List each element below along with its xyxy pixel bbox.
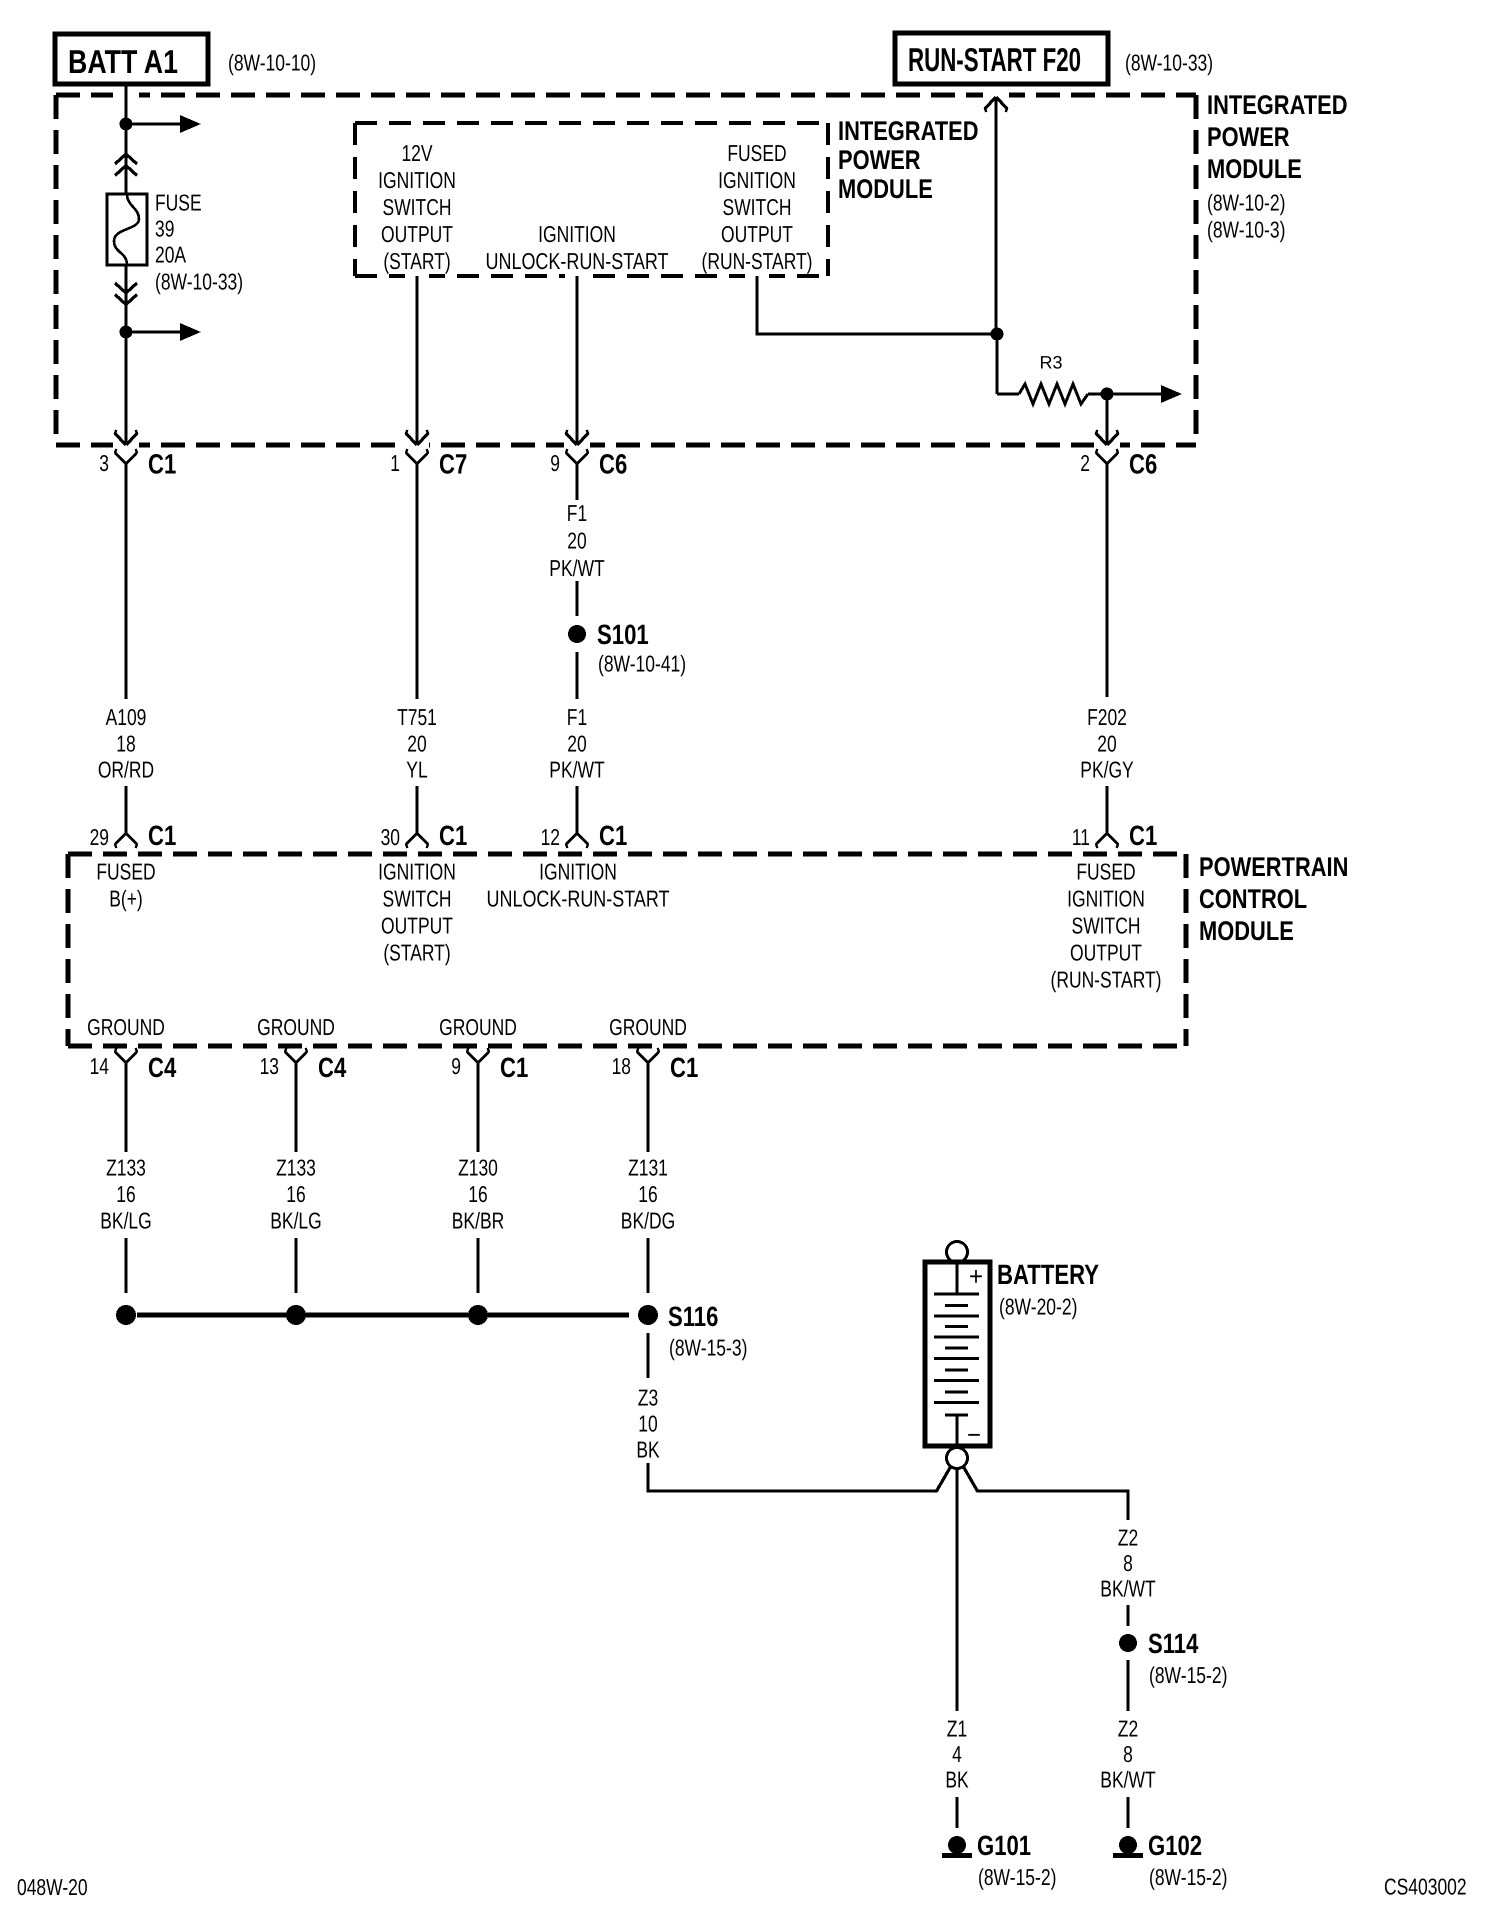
svg-text:C4: C4: [318, 1052, 347, 1083]
splice S116: [638, 1301, 747, 1360]
svg-text:UNLOCK-RUN-START: UNLOCK-RUN-START: [486, 248, 669, 274]
inline connector chevrons below fuse: [115, 283, 137, 305]
svg-text:SWITCH: SWITCH: [1072, 912, 1141, 938]
svg-text:13: 13: [260, 1053, 279, 1079]
label IGNITION SWITCH OUTPUT (START): [378, 858, 456, 965]
svg-text:18: 18: [612, 1053, 631, 1079]
svg-text:16: 16: [116, 1181, 135, 1207]
svg-text:(8W-15-2): (8W-15-2): [1149, 1662, 1227, 1688]
svg-text:20: 20: [567, 730, 586, 756]
junction at run-start feed: [991, 328, 1004, 341]
svg-text:11: 11: [1072, 824, 1090, 850]
svg-text:YL: YL: [406, 756, 428, 782]
svg-text:IGNITION: IGNITION: [718, 167, 796, 193]
svg-text:IGNITION: IGNITION: [1067, 885, 1145, 911]
svg-text:S101: S101: [597, 619, 649, 650]
wire down to resistor R3: [997, 334, 1019, 394]
wire ground Z133 BK/LG upper: [294, 1063, 297, 1152]
svg-text:SWITCH: SWITCH: [383, 885, 452, 911]
svg-text:Z3: Z3: [638, 1384, 658, 1410]
svg-text:14: 14: [90, 1053, 110, 1079]
connector 9 C6: [550, 449, 627, 480]
label GROUND x4: [87, 1014, 687, 1040]
svg-text:(8W-15-3): (8W-15-3): [669, 1334, 747, 1360]
svg-text:Z133: Z133: [276, 1154, 316, 1180]
label F202 20 PK/GY: [1080, 704, 1133, 783]
svg-text:POWER: POWER: [1207, 122, 1290, 152]
svg-text:12: 12: [541, 824, 560, 850]
svg-text:FUSED: FUSED: [1076, 858, 1135, 884]
svg-text:GROUND: GROUND: [87, 1014, 165, 1040]
svg-text:Z2: Z2: [1118, 1524, 1138, 1550]
svg-text:IGNITION: IGNITION: [378, 167, 456, 193]
label Z2 8 BK/WT (upper): [1100, 1524, 1155, 1601]
connector 14 C4: [90, 1048, 177, 1083]
svg-text:C1: C1: [439, 820, 467, 851]
svg-text:B(+): B(+): [109, 885, 143, 911]
splice S101: [568, 619, 686, 676]
svg-text:GROUND: GROUND: [439, 1014, 517, 1040]
svg-text:OUTPUT: OUTPUT: [721, 221, 793, 247]
connector 29 C1: [90, 820, 177, 851]
svg-text:BK/LG: BK/LG: [270, 1207, 322, 1233]
svg-text:BK/BR: BK/BR: [452, 1207, 505, 1233]
label A109 18 OR/RD: [98, 704, 154, 783]
wire to splice S101: [575, 581, 578, 616]
svg-text:F1: F1: [567, 500, 587, 526]
wire resistor to junction: [1088, 392, 1107, 395]
svg-text:MODULE: MODULE: [838, 174, 933, 204]
resistor R3: [1019, 353, 1088, 404]
svg-text:BK/LG: BK/LG: [100, 1207, 152, 1233]
wire Z2 battery negative to right: [963, 1466, 1128, 1520]
svg-text:UNLOCK-RUN-START: UNLOCK-RUN-START: [487, 885, 670, 911]
wire F202 upper: [1105, 464, 1108, 697]
wire from fused ignition switch output (run-start): [756, 276, 998, 334]
svg-text:(RUN-START): (RUN-START): [702, 248, 813, 274]
svg-text:10: 10: [638, 1410, 657, 1436]
label F1 20 PK/WT (lower): [549, 704, 604, 783]
wire fuse output: [124, 265, 127, 444]
svg-text:INTEGRATED: INTEGRATED: [838, 116, 979, 146]
svg-text:(START): (START): [383, 248, 450, 274]
wire up to RUN-START F20: [994, 97, 997, 334]
arrow into IPM connector C1 pin 3: [115, 430, 137, 445]
svg-text:(8W-10-33): (8W-10-33): [155, 268, 243, 294]
svg-text:FUSED: FUSED: [96, 858, 155, 884]
svg-text:(8W-10-2): (8W-10-2): [1207, 189, 1285, 215]
wire T751 from inner box: [415, 276, 418, 444]
label FUSED IGNITION SWITCH OUTPUT (RUN-START) (pcm): [1051, 858, 1162, 992]
svg-text:Z2: Z2: [1118, 1715, 1138, 1741]
svg-text:FUSED: FUSED: [727, 140, 786, 166]
wire F202 lower: [1105, 786, 1108, 833]
label T751 20 YL: [397, 704, 437, 783]
fuse block label RUN-START F20: [895, 33, 1213, 84]
svg-text:3: 3: [99, 450, 109, 476]
svg-text:BK/WT: BK/WT: [1100, 1575, 1155, 1601]
wire Z3 lower to battery negative: [647, 1463, 952, 1492]
wire Z3 upper: [646, 1333, 649, 1378]
svg-text:4: 4: [952, 1741, 962, 1767]
wire ground Z130 BK/BR lower: [476, 1238, 479, 1293]
svg-text:OUTPUT: OUTPUT: [1070, 939, 1142, 965]
svg-text:SWITCH: SWITCH: [723, 194, 792, 220]
svg-text:8: 8: [1123, 1741, 1133, 1767]
junction bus 1: [116, 1305, 136, 1325]
wire ground Z130 BK/BR upper: [476, 1063, 479, 1152]
svg-text:(8W-15-2): (8W-15-2): [978, 1864, 1056, 1890]
arrow into RUN-START F20: [985, 97, 1007, 112]
svg-text:IGNITION: IGNITION: [539, 858, 617, 884]
svg-text:GROUND: GROUND: [609, 1014, 687, 1040]
connector 30 C1: [381, 820, 468, 851]
svg-text:C1: C1: [148, 820, 176, 851]
label IGNITION UNLOCK-RUN-START (pcm): [487, 858, 670, 911]
svg-text:FUSE: FUSE: [155, 189, 202, 215]
arrow into IPM connector C7 pin 1: [406, 430, 428, 445]
svg-text:Z133: Z133: [106, 1154, 146, 1180]
label IGNITION UNLOCK-RUN-START: [486, 221, 669, 274]
svg-text:BK/DG: BK/DG: [621, 1207, 675, 1233]
svg-text:(8W-10-41): (8W-10-41): [598, 650, 686, 676]
wire A109 lower: [124, 786, 127, 833]
svg-text:PK/WT: PK/WT: [549, 756, 604, 782]
svg-text:(8W-10-10): (8W-10-10): [228, 49, 316, 75]
junction bus 3: [468, 1305, 488, 1325]
svg-text:1: 1: [390, 450, 400, 476]
svg-text:2: 2: [1080, 450, 1090, 476]
svg-text:(8W-15-2): (8W-15-2): [1149, 1864, 1227, 1890]
svg-text:20A: 20A: [155, 241, 187, 267]
arrow into IPM connector C6 pin 9: [566, 430, 588, 445]
battery: [925, 1242, 990, 1469]
label POWERTRAIN CONTROL MODULE: [1199, 852, 1348, 946]
svg-text:CONTROL: CONTROL: [1199, 884, 1307, 914]
wire T751 lower: [415, 786, 418, 833]
label 12V IGNITION SWITCH OUTPUT (START): [378, 140, 456, 274]
svg-text:18: 18: [116, 730, 135, 756]
svg-text:RUN-START F20: RUN-START F20: [908, 41, 1081, 78]
svg-text:S116: S116: [668, 1301, 718, 1332]
svg-text:(8W-10-3): (8W-10-3): [1207, 216, 1285, 242]
svg-text:20: 20: [407, 730, 426, 756]
svg-text:Z131: Z131: [628, 1154, 668, 1180]
svg-text:−: −: [967, 1420, 981, 1450]
svg-text:GROUND: GROUND: [257, 1014, 335, 1040]
svg-text:PK/GY: PK/GY: [1080, 756, 1133, 782]
svg-text:(START): (START): [383, 939, 450, 965]
label Z3 10 BK: [636, 1384, 660, 1462]
label Z130 16 BK/BR: [452, 1154, 505, 1233]
svg-text:20: 20: [1097, 730, 1116, 756]
ground G101: [942, 1830, 1056, 1890]
svg-text:R3: R3: [1040, 353, 1063, 373]
svg-text:C1: C1: [500, 1052, 528, 1083]
wire battery feed from BATT A1: [124, 84, 127, 194]
connector 12 C1: [541, 820, 628, 851]
wire Z2 from splice S114: [1126, 1660, 1129, 1711]
label Z133 16 BK/LG: [270, 1154, 322, 1233]
label Z2 8 BK/WT (lower): [1100, 1715, 1155, 1792]
wire from splice S101: [575, 652, 578, 699]
svg-text:IGNITION: IGNITION: [538, 221, 616, 247]
wire F1 upper: [575, 464, 578, 500]
svg-text:T751: T751: [397, 704, 437, 730]
inline connector chevrons above fuse: [115, 154, 137, 176]
powertrain control module dashed box: [68, 854, 1186, 1046]
svg-text:CS403002: CS403002: [1384, 1873, 1467, 1899]
svg-text:C1: C1: [1129, 820, 1157, 851]
svg-text:POWER: POWER: [838, 145, 921, 175]
svg-text:C1: C1: [148, 449, 176, 480]
wire junction down to connector: [1105, 394, 1108, 444]
wire F1 lower: [575, 786, 578, 833]
wire ground Z131 BK/DG upper: [646, 1063, 649, 1152]
connector 1 C7: [390, 449, 467, 480]
label FUSED IGNITION SWITCH OUTPUT (RUN-START): [702, 140, 813, 274]
junction bus 2: [286, 1305, 306, 1325]
svg-text:8: 8: [1123, 1550, 1133, 1576]
svg-text:F202: F202: [1087, 704, 1127, 730]
label F1 20 PK/WT (upper): [549, 500, 604, 581]
wire F1 from inner box: [575, 276, 578, 444]
svg-text:BATTERY: BATTERY: [997, 1259, 1099, 1290]
svg-text:12V: 12V: [401, 140, 433, 166]
label INTEGRATED POWER MODULE (right): [1207, 90, 1348, 243]
wire ground Z133 BK/LG lower: [294, 1238, 297, 1293]
svg-text:(RUN-START): (RUN-START): [1051, 966, 1162, 992]
svg-text:G102: G102: [1148, 1830, 1202, 1861]
svg-text:39: 39: [155, 215, 174, 241]
label Z133 16 BK/LG: [100, 1154, 152, 1233]
label Z1 4 BK: [945, 1715, 969, 1792]
svg-text:OUTPUT: OUTPUT: [381, 221, 453, 247]
svg-text:C1: C1: [670, 1052, 698, 1083]
label INTEGRATED POWER MODULE (inner): [838, 116, 979, 204]
svg-text:SWITCH: SWITCH: [383, 194, 452, 220]
svg-text:9: 9: [451, 1053, 461, 1079]
svg-text:BK: BK: [945, 1766, 969, 1792]
svg-text:+: +: [969, 1261, 983, 1291]
connector 13 C4: [260, 1048, 347, 1083]
junction with arrow (run-start out): [1101, 385, 1183, 403]
svg-text:C6: C6: [599, 449, 627, 480]
svg-text:MODULE: MODULE: [1199, 916, 1294, 946]
connector 3 C1: [99, 449, 176, 480]
svg-text:S114: S114: [1148, 1628, 1199, 1659]
svg-text:IGNITION: IGNITION: [378, 858, 456, 884]
wire Z2 to ground G102: [1126, 1797, 1129, 1828]
wire Z1 to ground G101: [955, 1797, 958, 1828]
svg-text:048W-20: 048W-20: [17, 1874, 88, 1900]
svg-text:Z1: Z1: [947, 1715, 967, 1741]
svg-text:G101: G101: [977, 1830, 1031, 1861]
splice S114: [1119, 1628, 1227, 1688]
label BATTERY (8W-20-2): [997, 1259, 1099, 1319]
svg-text:PK/WT: PK/WT: [549, 555, 604, 581]
svg-text:OR/RD: OR/RD: [98, 756, 154, 782]
label FUSED B(+): [96, 858, 155, 911]
connector 9 C1: [451, 1048, 528, 1083]
svg-text:Z130: Z130: [458, 1154, 498, 1180]
svg-text:16: 16: [468, 1181, 487, 1207]
svg-text:A109: A109: [106, 704, 147, 730]
svg-text:(8W-10-33): (8W-10-33): [1125, 49, 1213, 75]
svg-text:BK/WT: BK/WT: [1100, 1766, 1155, 1792]
junction with arrow (fused feed out): [120, 323, 202, 341]
svg-text:BK: BK: [636, 1436, 660, 1462]
integrated power module dashed box: [56, 90, 1196, 450]
ground G102: [1113, 1830, 1227, 1890]
wire Z2 to splice S114: [1126, 1605, 1129, 1626]
ignition switch inner dashed box: [355, 123, 828, 280]
svg-text:16: 16: [638, 1181, 657, 1207]
wire ground Z131 BK/DG lower: [646, 1238, 649, 1293]
svg-text:C7: C7: [439, 449, 467, 480]
ground bus wire: [137, 1313, 629, 1318]
svg-text:POWERTRAIN: POWERTRAIN: [1199, 852, 1348, 882]
svg-text:30: 30: [381, 824, 400, 850]
svg-text:(8W-20-2): (8W-20-2): [999, 1293, 1077, 1319]
fuse block label BATT A1: [55, 34, 316, 84]
svg-text:C4: C4: [148, 1052, 177, 1083]
fuse 39 20A: [107, 189, 243, 294]
svg-text:16: 16: [286, 1181, 305, 1207]
arrow into IPM connector C6 pin 2: [1096, 430, 1118, 445]
svg-text:C1: C1: [599, 820, 627, 851]
svg-text:F1: F1: [567, 704, 587, 730]
svg-text:20: 20: [567, 527, 586, 553]
wire ground Z133 BK/LG upper: [124, 1063, 127, 1152]
connector 2 C6: [1080, 449, 1157, 480]
label Z131 16 BK/DG: [621, 1154, 675, 1233]
junction with arrow (feed out): [120, 115, 202, 133]
svg-text:C6: C6: [1129, 449, 1157, 480]
svg-text:9: 9: [550, 450, 560, 476]
svg-text:29: 29: [90, 824, 109, 850]
wire ground Z133 BK/LG lower: [124, 1238, 127, 1293]
svg-text:MODULE: MODULE: [1207, 154, 1302, 184]
wire A109 upper: [124, 464, 127, 699]
wire T751 upper: [415, 464, 418, 699]
svg-text:INTEGRATED: INTEGRATED: [1207, 90, 1348, 120]
svg-text:BATT A1: BATT A1: [68, 43, 178, 80]
connector 11 C1: [1072, 820, 1157, 851]
svg-text:OUTPUT: OUTPUT: [381, 912, 453, 938]
wire Z1 battery negative down: [955, 1469, 958, 1711]
connector 18 C1: [612, 1048, 699, 1083]
